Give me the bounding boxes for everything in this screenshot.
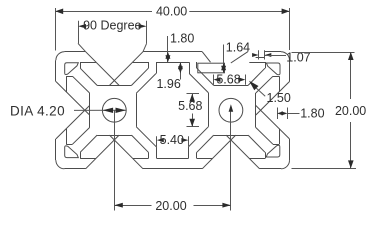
- svg-text:20.00: 20.00: [335, 104, 366, 118]
- svg-text:1.96: 1.96: [156, 77, 180, 91]
- dimension 5.40 (bottom channel width): [157, 136, 189, 146]
- center mark arrow (right hole): [229, 104, 234, 112]
- dimension 1.64 (lip thickness): [221, 45, 226, 73]
- dimension 5.68 (slot floor width): [214, 75, 246, 85]
- bottom-right V-slot: [197, 135, 266, 169]
- svg-text:40.00: 40.00: [156, 4, 187, 18]
- dimension 1.07 (edge land): [252, 50, 286, 59]
- leader 1.50 (chamfer): [249, 81, 265, 97]
- right end V-slot: [256, 76, 290, 144]
- corner edge notch (1.07 land): [256, 52, 265, 58]
- svg-text:5.40: 5.40: [160, 133, 184, 147]
- dimension 20.00 (right, overall height): [292, 52, 357, 169]
- svg-text:90 Degree: 90 Degree: [83, 19, 141, 33]
- outer profile outline: [56, 52, 290, 169]
- leader DIA 4.20 (center hole): [74, 108, 126, 113]
- bottom-left V-slot: [80, 135, 148, 169]
- svg-text:5.68: 5.68: [216, 73, 240, 87]
- left center hole DIA 4.20: [102, 98, 126, 122]
- svg-text:1.80: 1.80: [300, 107, 324, 121]
- dimension 90 Degree (V-slot angle): [78, 21, 147, 52]
- central octagonal cavity with top/bottom channels: [136, 62, 208, 158]
- dimension 1.96 (web thickness): [178, 62, 183, 79]
- top-left V-slot: [80, 52, 148, 86]
- svg-text:1.80: 1.80: [170, 31, 194, 45]
- svg-text:DIA 4.20: DIA 4.20: [10, 104, 65, 119]
- svg-text:1.64: 1.64: [226, 41, 250, 55]
- left end V-slot: [56, 76, 90, 144]
- top-right T-slot (detail view): [197, 52, 266, 86]
- corner triangle holes: [65, 63, 280, 158]
- right center hole: [219, 98, 243, 122]
- dimension 40.00 (top): [55, 8, 289, 51]
- svg-text:20.00: 20.00: [155, 199, 186, 213]
- dimension 5.68 (octagon side, vertical): [187, 94, 200, 127]
- dimension 20.00 (bottom, hole spacing): [114, 110, 231, 210]
- svg-text:5.68: 5.68: [178, 99, 202, 113]
- dimension 1.80 (top channel depth): [165, 36, 170, 62]
- svg-text:1.50: 1.50: [267, 91, 291, 105]
- dimension 1.80 (right wall): [277, 108, 300, 120]
